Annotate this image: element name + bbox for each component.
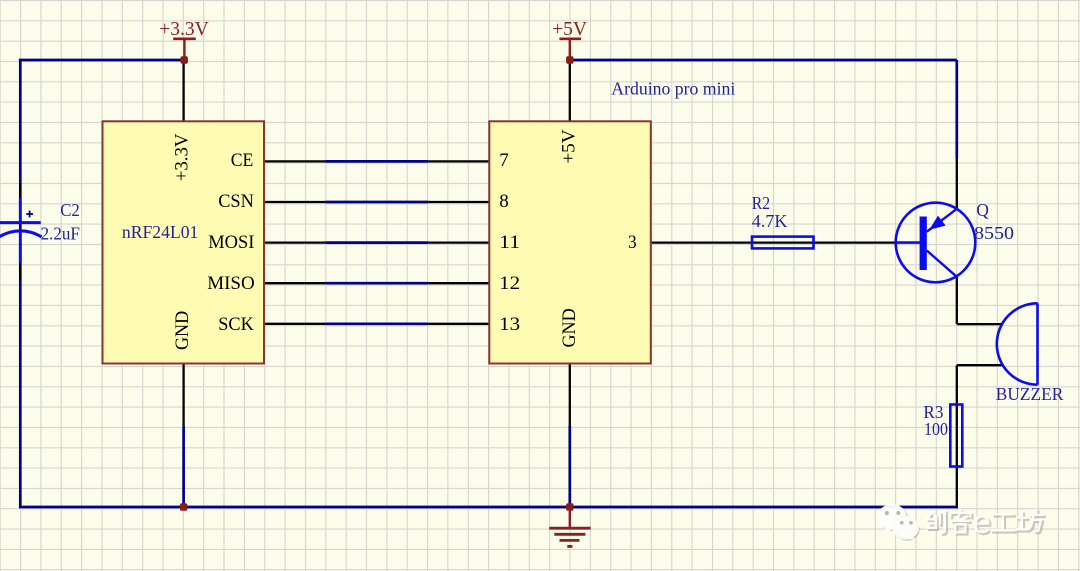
- svg-text:CE: CE: [231, 150, 254, 171]
- pin stub: +3.3V power pin into nRF24L01: [182, 60, 184, 121]
- IC U2 Arduino pro mini box: [489, 121, 651, 363]
- pin stub: Arduino pin 13: [428, 323, 489, 325]
- svg-text:Q: Q: [976, 200, 989, 220]
- wire: CSN-8 net middle segment: [325, 201, 428, 204]
- pin stub: +5V power pin into Arduino: [569, 60, 571, 121]
- pin stub: Arduino pin 8: [428, 201, 489, 203]
- svg-text:SCK: SCK: [218, 314, 254, 335]
- pin stub: Arduino pin 11: [428, 241, 489, 243]
- transistor Q1 8550 PNP: [896, 203, 976, 283]
- svg-text:8: 8: [499, 191, 509, 212]
- IC U1 nRF24L01 box: [103, 121, 265, 363]
- junction dot nRF GND node: [180, 503, 187, 510]
- wire: bottom ground rail: [19, 506, 957, 509]
- wire: R3 down to bottom rail: [956, 467, 958, 509]
- pin stub: transistor emitter vertical: [956, 159, 958, 209]
- pin stub: buzzer bottom pin: [957, 364, 1003, 366]
- resistor R2 body: [752, 237, 814, 249]
- svg-text:8550: 8550: [974, 223, 1014, 243]
- watermark wechat icon: [878, 504, 920, 541]
- capacitor C2 plus sign: [26, 211, 33, 218]
- pin stub: buzzer top pin: [957, 323, 1003, 325]
- watermark text 创客e工坊: [927, 503, 1045, 542]
- svg-text:+5V: +5V: [558, 129, 579, 164]
- svg-text:100: 100: [924, 419, 948, 439]
- ground symbol: [549, 507, 590, 546]
- svg-text:+3.3V: +3.3V: [172, 133, 193, 181]
- resistor R3 body: [950, 405, 962, 467]
- pin stub: Arduino pin 7: [428, 160, 489, 162]
- pin stub: nRF24L01 CE: [264, 160, 325, 162]
- wire: buzzer to R3: [956, 365, 958, 404]
- svg-text:3: 3: [628, 232, 637, 253]
- junction dot Arduino GND node: [566, 503, 573, 510]
- wire: SCK-13 net middle segment: [325, 322, 428, 325]
- svg-text:MOSI: MOSI: [208, 232, 254, 253]
- pin stub: nRF24L01 SCK: [264, 323, 325, 325]
- pin stub: Arduino GND pin: [569, 364, 571, 426]
- wire: top-left horizontal from C2 branch to +3.3V node: [19, 59, 184, 62]
- pin stub: nRF24L01 CSN: [264, 201, 325, 203]
- wire: R3 through-lead: [956, 405, 958, 467]
- svg-text:Arduino pro mini: Arduino pro mini: [611, 79, 735, 99]
- svg-text:+5V: +5V: [552, 19, 587, 40]
- wire: left vertical rail through C2: [19, 60, 22, 507]
- pin stub: capacitor C2 bottom lead: [19, 263, 21, 280]
- wire: MOSI-11 net middle segment: [325, 241, 428, 244]
- pin stub: nRF24L01 MOSI: [264, 241, 325, 243]
- power +5V symbol: [552, 19, 587, 60]
- pin stub: nRF24L01 MISO: [264, 282, 325, 284]
- wire: vertical drop to transistor emitter: [955, 60, 958, 159]
- svg-text:7: 7: [499, 150, 509, 171]
- svg-text:BUZZER: BUZZER: [996, 384, 1064, 404]
- pin stub: Arduino pin 12: [428, 282, 489, 284]
- svg-text:+3.3V: +3.3V: [159, 19, 208, 40]
- wire: transistor collector down to buzzer: [956, 277, 958, 325]
- svg-text:GND: GND: [172, 311, 193, 350]
- wire: Arduino pin 3 to transistor base through R2: [651, 241, 896, 243]
- junction dot +3.3V node: [181, 56, 188, 63]
- wire: Arduino GND to bottom rail: [568, 425, 571, 507]
- svg-text:12: 12: [499, 273, 520, 294]
- wire: CE-7 net middle segment: [325, 160, 428, 163]
- pin stub: nRF24L01 GND pin: [182, 364, 184, 426]
- buzzer LS1 symbol: [997, 303, 1038, 384]
- pin stub: capacitor C2 top lead: [19, 183, 21, 198]
- junction dot +5V node: [566, 56, 573, 63]
- svg-text:e: e: [973, 503, 991, 540]
- wire: MISO-12 net middle segment: [325, 282, 428, 285]
- svg-text:GND: GND: [559, 308, 580, 347]
- svg-text:nRF24L01: nRF24L01: [122, 222, 198, 242]
- svg-text:C2: C2: [60, 200, 80, 220]
- svg-text:4.7K: 4.7K: [752, 211, 788, 231]
- svg-text:2.2uF: 2.2uF: [41, 223, 80, 243]
- capacitor C2 symbol: [0, 198, 42, 263]
- power +3.3V symbol: [159, 19, 208, 60]
- svg-text:MISO: MISO: [207, 273, 255, 294]
- wire: top rail from +5V node to transistor branch: [570, 59, 957, 62]
- svg-text:CSN: CSN: [218, 191, 254, 212]
- svg-text:11: 11: [499, 232, 520, 253]
- wire: nRF24L01 GND to bottom rail: [182, 425, 185, 507]
- svg-text:13: 13: [499, 314, 520, 335]
